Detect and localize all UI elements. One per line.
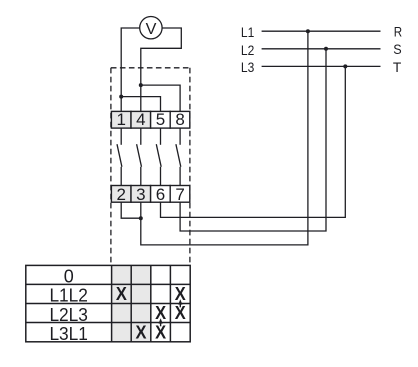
svg-text:X: X — [116, 283, 128, 304]
svg-text:S: S — [393, 41, 401, 57]
svg-text:8: 8 — [175, 110, 184, 129]
svg-text:4: 4 — [136, 110, 145, 129]
svg-text:3: 3 — [136, 185, 145, 204]
svg-text:5: 5 — [156, 110, 165, 129]
svg-text:L2: L2 — [241, 43, 254, 58]
svg-text:L1L2: L1L2 — [49, 286, 88, 306]
svg-text:V: V — [146, 21, 158, 38]
svg-text:7: 7 — [175, 185, 184, 204]
svg-text:X: X — [136, 321, 148, 342]
svg-text:L2L3: L2L3 — [49, 305, 88, 325]
svg-text:2: 2 — [116, 185, 125, 204]
svg-text:L3: L3 — [241, 60, 254, 75]
svg-text:1: 1 — [116, 110, 125, 129]
svg-text:L3L1: L3L1 — [49, 324, 88, 344]
svg-text:T: T — [393, 59, 402, 75]
svg-text:R: R — [394, 24, 402, 40]
svg-text:L1: L1 — [241, 25, 254, 40]
svg-text:0: 0 — [64, 267, 74, 287]
svg-text:6: 6 — [156, 185, 165, 204]
